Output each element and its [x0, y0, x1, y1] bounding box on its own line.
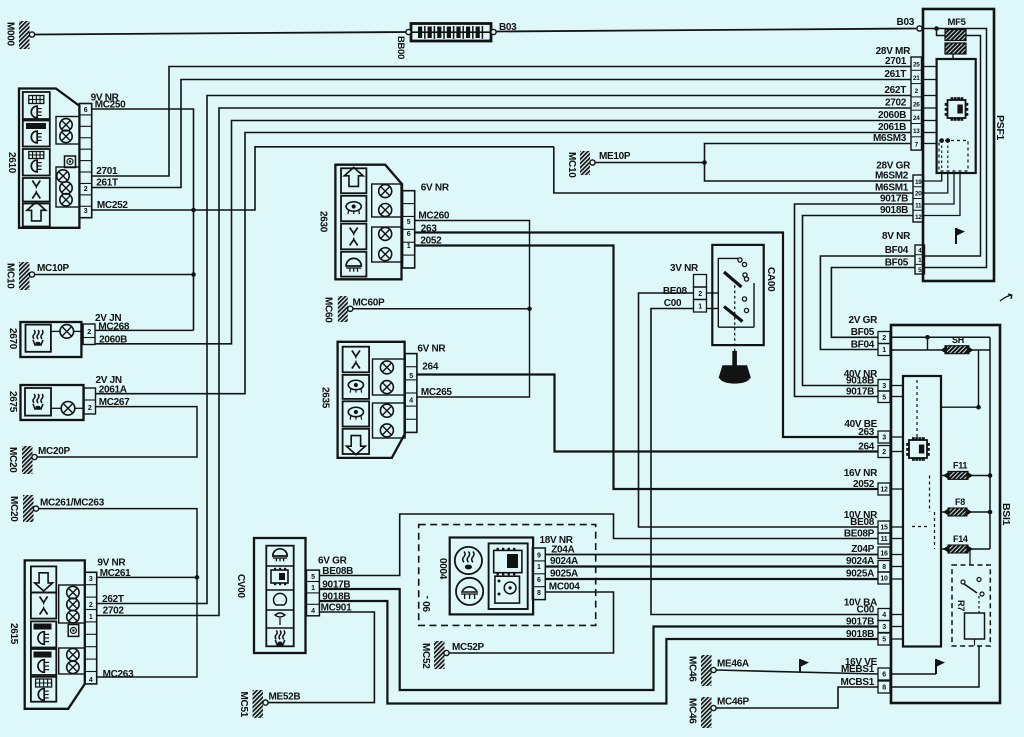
svg-text:9018B: 9018B — [846, 629, 874, 640]
svg-text:ME52B: ME52B — [269, 692, 301, 703]
bulb bracket 2610 bottom — [56, 167, 79, 207]
wire MC268 — [95, 329, 194, 331]
wire MC261 — [97, 576, 197, 578]
junction MC252/MC250 — [191, 208, 196, 213]
pin stubs CA00 — [707, 293, 719, 309]
svg-text:264: 264 — [858, 442, 875, 453]
svg-text:C00: C00 — [664, 298, 682, 309]
junction MF5 feed — [934, 26, 939, 31]
svg-text:MC60: MC60 — [323, 297, 334, 323]
relay R7 — [952, 549, 990, 646]
svg-text:MC10: MC10 — [5, 263, 16, 289]
junction MC261 — [195, 575, 200, 580]
connector pins PSF1 column 3 — [915, 245, 925, 274]
svg-text:2052: 2052 — [853, 479, 875, 490]
wire MCBS1 to relay R7 — [890, 646, 979, 687]
wire 262T bus — [97, 96, 911, 604]
svg-text:BF05: BF05 — [851, 327, 875, 338]
svg-text:9024A: 9024A — [550, 556, 578, 567]
svg-text:26: 26 — [913, 102, 920, 109]
bulb 2615 b — [67, 598, 79, 610]
switch CA00 body — [712, 245, 763, 345]
svg-text:2061A: 2061A — [99, 385, 127, 396]
svg-text:M000: M000 — [5, 22, 16, 47]
IC chip inside BSI1 — [909, 440, 927, 458]
svg-text:MC10P: MC10P — [37, 263, 69, 274]
ground MC51 — [238, 690, 300, 718]
fuse F8 — [941, 497, 992, 516]
svg-text:9025A: 9025A — [846, 569, 874, 580]
fuse MF5 — [937, 17, 967, 59]
connector pins PSF1 column 1 — [911, 57, 922, 150]
svg-text:262T: 262T — [102, 594, 124, 605]
dashed section inside PSF1 module — [939, 138, 968, 171]
svg-text:9018B: 9018B — [846, 376, 874, 387]
switch CA00 internals — [718, 258, 754, 351]
icon 2615 arrows VA — [31, 593, 56, 619]
icon 2635 arrows VA — [343, 347, 370, 373]
icon 2635 eye — [343, 401, 370, 426]
seat heater left — [455, 547, 482, 574]
ground ME10 — [566, 151, 631, 178]
icon 2630 arrow up — [341, 167, 366, 193]
svg-text:R7: R7 — [956, 600, 966, 611]
bulb 2675 — [51, 402, 84, 416]
connector pins BSI1 2V GR — [878, 332, 890, 356]
svg-text:1: 1 — [698, 303, 702, 310]
svg-text:MC60P: MC60P — [353, 298, 385, 309]
icon CV00 key — [266, 613, 293, 628]
svg-text:MC250: MC250 — [95, 100, 126, 111]
wire B03 to PSF1 — [496, 29, 917, 32]
wire 9017B PSF1 to BSI — [795, 204, 914, 397]
svg-text:MC20P: MC20P — [38, 446, 70, 457]
svg-text:MCBS1: MCBS1 — [840, 677, 874, 688]
wire 2701 bus — [92, 67, 911, 177]
icon 2610 arrow down — [23, 178, 50, 202]
pin stubs BSI 10V BA — [890, 615, 903, 640]
fuse F11 — [941, 461, 992, 480]
svg-text:3V NR: 3V NR — [670, 263, 699, 274]
svg-text:BE08: BE08 — [850, 517, 875, 528]
connector 2615 pin ladder — [85, 572, 97, 684]
bulb bracket 2615 top — [59, 585, 85, 623]
connector 2635 pin ladder — [405, 354, 417, 433]
connector 2615 body — [25, 560, 85, 708]
fuse F14 — [941, 534, 990, 553]
wire M6SM3 branch to PSF1 — [705, 144, 912, 163]
icon CV00 chip — [266, 568, 293, 590]
bulb 2610 d — [60, 182, 72, 194]
wire MC004 to MC52 — [449, 592, 614, 653]
key symbol of CA00 — [720, 351, 751, 384]
svg-text:2630: 2630 — [318, 211, 329, 233]
icon CV00 cigarette lighter — [275, 630, 277, 639]
svg-text:261T: 261T — [96, 178, 118, 189]
svg-text:6V GR: 6V GR — [318, 556, 348, 567]
ground M000 — [5, 21, 35, 49]
wire MC10P — [35, 274, 194, 276]
bulb bracket 2630 top — [372, 184, 403, 217]
wire MEBS1 stub — [890, 673, 936, 675]
svg-text:SH: SH — [952, 335, 964, 345]
svg-text:3: 3 — [882, 383, 886, 390]
svg-text:13: 13 — [913, 128, 920, 135]
bulb 2635 d — [380, 424, 393, 437]
lamp box 2610 — [65, 156, 76, 168]
flag marker inside BSI1 — [936, 659, 945, 674]
junction ME10P — [702, 160, 707, 165]
internal shunt rail BSI1 — [941, 350, 981, 410]
svg-text:4: 4 — [311, 608, 315, 615]
bulb bracket 2630 bottom — [372, 227, 403, 262]
wire 9025A to BSI — [545, 578, 877, 580]
battery connector B00 — [395, 24, 496, 60]
svg-text:4: 4 — [409, 398, 413, 405]
svg-text:8: 8 — [537, 590, 541, 597]
connector pins BSI1 40V NR — [878, 380, 890, 403]
svg-text:B03: B03 — [897, 17, 915, 28]
bulb bracket 2610 top — [56, 117, 79, 145]
icon 2610 stop lamp — [23, 149, 50, 176]
svg-text:PSF1: PSF1 — [994, 115, 1006, 141]
wire M000 to B00 — [35, 32, 409, 35]
ground MC20 — [7, 446, 70, 474]
svg-text:9018B: 9018B — [880, 205, 908, 216]
svg-text:1: 1 — [311, 585, 315, 592]
bulb 2635 b — [380, 381, 393, 394]
connector pins BSI1 40V BE — [878, 431, 890, 458]
shunt SH — [890, 335, 990, 354]
svg-text:C00: C00 — [857, 605, 875, 616]
connector CV00 body — [254, 538, 306, 653]
icon 2610 tail lamp — [23, 121, 50, 147]
pin stubs BSI 2V GR — [890, 337, 891, 349]
icon 2630 arrows VA — [341, 224, 366, 250]
svg-text:9025A: 9025A — [550, 569, 578, 580]
svg-text:M6SM3: M6SM3 — [873, 133, 907, 144]
svg-text:2: 2 — [84, 186, 88, 193]
svg-text:MC46P: MC46P — [717, 697, 749, 708]
ground MC10 — [5, 262, 70, 290]
svg-text:6V NR: 6V NR — [421, 183, 450, 194]
dashed detail BSI1 a — [916, 380, 918, 437]
icon 2630 eye — [341, 196, 366, 221]
svg-text:8: 8 — [882, 564, 886, 571]
svg-text:8: 8 — [882, 685, 886, 692]
bulb 2610 b — [60, 130, 72, 142]
svg-text:9024A: 9024A — [846, 556, 874, 567]
svg-text:MC20: MC20 — [7, 447, 18, 473]
connector pins PSF1 column 2 — [913, 175, 924, 222]
icon CV00 bulb — [266, 593, 293, 610]
connector pins BSI1 10V BA — [878, 609, 890, 646]
svg-text:2670: 2670 — [7, 328, 18, 350]
wire M6SM2 branch to PSF1 — [705, 163, 914, 182]
svg-text:MC261/MC263: MC261/MC263 — [40, 498, 105, 509]
pin stub BSI 2052 — [890, 488, 903, 490]
svg-text:3: 3 — [84, 208, 88, 215]
wire 263 to BSI — [415, 233, 878, 438]
splice flag on ME46A wire — [800, 659, 809, 672]
wire 2702 bus — [97, 108, 911, 616]
wire 261T bus — [92, 80, 911, 188]
svg-text:4: 4 — [89, 677, 93, 684]
svg-text:F14: F14 — [953, 534, 968, 544]
svg-text:11: 11 — [915, 202, 922, 209]
connector pins 0004 — [532, 548, 545, 600]
icon 2615 arrow down — [31, 566, 56, 592]
wire MC252 to masse riser — [92, 147, 554, 210]
bulb 2615 d — [67, 649, 79, 661]
svg-text:8V NR: 8V NR — [882, 231, 911, 242]
wire BF05 PSF1 to BSI — [831, 268, 915, 338]
svg-text:2610: 2610 — [6, 152, 17, 174]
scan mark — [1000, 294, 1012, 301]
module 0004 electronics — [489, 543, 528, 609]
wire MC260 masse — [415, 221, 530, 398]
svg-text:264: 264 — [422, 361, 439, 372]
icon 2615 reverse lamp — [31, 649, 56, 675]
connector pins BSI1 16V VE — [878, 668, 890, 693]
svg-text:5: 5 — [407, 219, 411, 226]
wire MF5 output to BF04 — [925, 36, 981, 257]
icon 2635 fog eye — [343, 375, 370, 399]
svg-text:MC20: MC20 — [8, 496, 19, 522]
svg-text:2635: 2635 — [320, 387, 331, 409]
ground MC46 ME46A — [687, 655, 749, 686]
svg-text:5: 5 — [882, 394, 886, 401]
wire BF04 PSF1 to BSI — [820, 256, 915, 350]
svg-text:6: 6 — [84, 107, 88, 114]
svg-text:3: 3 — [882, 624, 886, 631]
pin stubs PSF1 column 1 — [922, 66, 937, 68]
connector 2610 body — [19, 89, 79, 228]
bulb 2610 a — [60, 119, 72, 131]
wire 9017B long route — [319, 589, 877, 690]
body controller BSI1 outline — [891, 325, 1000, 703]
svg-text:MC265: MC265 — [421, 387, 452, 398]
icon 2610 arrow up — [23, 202, 50, 227]
svg-text:MC263: MC263 — [103, 669, 134, 680]
svg-text:1: 1 — [407, 243, 411, 250]
svg-text:10: 10 — [880, 576, 888, 583]
wire BE08 to BSI — [639, 293, 878, 527]
svg-text:BSI1: BSI1 — [1000, 503, 1012, 526]
svg-text:16V NR: 16V NR — [844, 468, 878, 479]
wire 9024A to BSI — [545, 565, 877, 567]
svg-text:ME10P: ME10P — [599, 151, 631, 162]
svg-text:2: 2 — [882, 449, 886, 456]
bulb 2635 a — [380, 361, 393, 374]
svg-text:5: 5 — [311, 574, 315, 581]
svg-text:BF04: BF04 — [851, 340, 875, 351]
wire BE08B to BSI BE08P — [319, 514, 877, 576]
svg-text:3: 3 — [89, 576, 93, 583]
svg-text:1: 1 — [882, 347, 886, 354]
svg-text:2675: 2675 — [7, 391, 18, 413]
svg-text:MEBS1: MEBS1 — [841, 664, 875, 675]
lamp box 2615 — [68, 625, 79, 637]
junction MC10P — [191, 272, 196, 277]
bulb 2630 a — [379, 185, 392, 198]
pin stubs BSI 10V NR — [890, 527, 903, 579]
wire ME46A to BSI MEBS1 — [716, 670, 878, 674]
svg-text:3: 3 — [882, 435, 886, 442]
svg-text:11: 11 — [881, 536, 888, 543]
icon 2635 arrow down — [343, 429, 370, 455]
bulb 2630 b — [379, 204, 392, 217]
svg-text:9017B: 9017B — [846, 387, 874, 398]
bulb bracket 2635 top — [373, 359, 406, 395]
wire MC901 to MC51 — [268, 612, 374, 703]
wire 9018B PSF1 to BSI — [803, 216, 914, 386]
svg-text:BE08: BE08 — [663, 286, 688, 297]
pin stubs PSF1 column 2 — [924, 173, 961, 216]
wire 264 to BSI — [417, 375, 878, 452]
svg-text:4: 4 — [882, 612, 886, 619]
svg-text:2060B: 2060B — [99, 334, 127, 345]
svg-text:CA00: CA00 — [765, 267, 776, 292]
svg-text:2702: 2702 — [103, 606, 125, 617]
pin stubs BSI 40V BE — [890, 437, 903, 452]
svg-text:BB00: BB00 — [395, 36, 406, 59]
svg-text:F11: F11 — [953, 461, 967, 471]
svg-text:2: 2 — [89, 602, 93, 609]
icon 2615 plate lamp — [31, 677, 56, 702]
svg-text:5: 5 — [882, 637, 886, 644]
svg-text:263: 263 — [858, 427, 875, 438]
svg-text:1: 1 — [537, 564, 541, 571]
fuse box PSF1 outline — [923, 9, 994, 281]
connector pins CA00 — [694, 275, 707, 313]
svg-text:2702: 2702 — [885, 98, 907, 109]
BSI1 inner module — [903, 376, 941, 647]
svg-text:24: 24 — [913, 115, 920, 122]
svg-text:2701: 2701 — [885, 56, 907, 67]
svg-text:2: 2 — [87, 329, 91, 336]
wire 9018B long route — [319, 601, 877, 704]
svg-text:MC10: MC10 — [566, 152, 577, 178]
bulb 2615 e — [67, 661, 79, 673]
dashed detail BSI1 b — [912, 476, 935, 550]
connector 2670 body — [20, 322, 81, 357]
BF05 rail inside BSI1 — [890, 335, 990, 350]
bulb 2615 c — [67, 611, 79, 623]
svg-text:90 -: 90 - — [422, 596, 433, 612]
module 0004 body — [450, 538, 533, 615]
connector 2610 pin ladder — [79, 104, 91, 218]
svg-text:M6SM2: M6SM2 — [875, 171, 909, 182]
svg-text:9017B: 9017B — [880, 194, 908, 205]
module 0004 dashed enclosure — [419, 525, 596, 626]
svg-text:0004: 0004 — [437, 558, 448, 580]
connector pins BSI1 10V NR — [878, 521, 890, 584]
svg-text:2060B: 2060B — [878, 110, 906, 121]
ground MC46 MC46P — [687, 697, 750, 729]
wire C00 to BSI — [651, 309, 878, 615]
svg-text:Z04P: Z04P — [851, 544, 874, 555]
svg-text:2: 2 — [698, 291, 702, 298]
connector 2670 pin ladder — [83, 324, 95, 345]
svg-text:2061B: 2061B — [878, 122, 906, 133]
flag marker inside PSF1 — [956, 228, 965, 244]
svg-text:6: 6 — [407, 231, 411, 238]
svg-text:MC52: MC52 — [420, 643, 431, 669]
connector 2630 pin ladder — [403, 191, 415, 268]
svg-text:M6SM1: M6SM1 — [875, 183, 909, 194]
svg-text:1: 1 — [89, 614, 93, 621]
svg-text:6: 6 — [537, 577, 541, 584]
bulb 2630 c — [379, 227, 392, 240]
svg-text:5: 5 — [409, 373, 413, 380]
icon 2615 fog lamp — [31, 621, 56, 647]
icon 2630 dome lamp — [341, 252, 366, 277]
wire M6SM1 from masse bus to PSF1 — [554, 147, 913, 193]
svg-text:20: 20 — [915, 191, 922, 198]
svg-text:6: 6 — [882, 672, 886, 679]
svg-text:261T: 261T — [884, 69, 906, 80]
icon CV00 dome — [266, 549, 293, 566]
connector 2635 body — [338, 342, 405, 458]
ground MC60 — [323, 296, 385, 323]
connector 2630 body — [335, 165, 401, 280]
bulb bracket 2615 bottom — [59, 648, 85, 674]
svg-text:MF5: MF5 — [948, 17, 967, 28]
bulb 2670 — [51, 325, 83, 339]
svg-text:2701: 2701 — [96, 166, 118, 177]
wire 2060B bus — [95, 121, 911, 344]
svg-text:ME46A: ME46A — [717, 659, 749, 670]
svg-text:MC51: MC51 — [238, 692, 249, 718]
relay module inside PSF1 — [937, 59, 976, 173]
svg-text:12: 12 — [880, 487, 888, 494]
wire MC250 — [92, 109, 194, 330]
wire ME10P — [595, 162, 705, 164]
svg-text:MC46: MC46 — [687, 698, 698, 724]
junction MC60P — [527, 307, 532, 312]
svg-text:9017B: 9017B — [846, 617, 874, 628]
bulb 2610 c — [57, 170, 69, 182]
wire 2052 to BSI — [415, 246, 878, 490]
internal feed rail BSI1 — [989, 337, 991, 549]
svg-text:2: 2 — [882, 335, 886, 342]
svg-text:MC52P: MC52P — [452, 642, 484, 653]
svg-text:12: 12 — [915, 214, 922, 221]
wire MC60P — [353, 308, 530, 310]
bulb 2630 d — [379, 248, 392, 261]
wire B03 internal to BF05 — [922, 29, 987, 268]
wire MC267 to MC20 — [37, 407, 197, 457]
svg-text:19: 19 — [915, 179, 922, 186]
svg-text:262T: 262T — [884, 85, 906, 96]
svg-text:15: 15 — [880, 525, 888, 532]
IC chip inside PSF1 — [948, 100, 966, 118]
svg-text:MC004: MC004 — [549, 582, 580, 593]
connector CV00 pin ladder — [307, 570, 320, 616]
connector pins BSI1 16V NR — [878, 483, 890, 495]
wire MC261/MC263 masse riser — [39, 509, 198, 677]
bulb 2635 c — [380, 404, 393, 417]
wire MC46P to BSI MCBS1 — [716, 687, 878, 708]
wire Z04A to BSI Z04P — [545, 554, 877, 556]
wire 2061A/2061B bus — [96, 133, 912, 394]
svg-text:2: 2 — [88, 405, 92, 412]
svg-text:16: 16 — [880, 550, 888, 557]
icon 2610 plate lamp — [23, 92, 50, 119]
bulb bracket 2635 bottom — [373, 403, 406, 438]
connector 2675 pin ladder — [84, 388, 96, 414]
